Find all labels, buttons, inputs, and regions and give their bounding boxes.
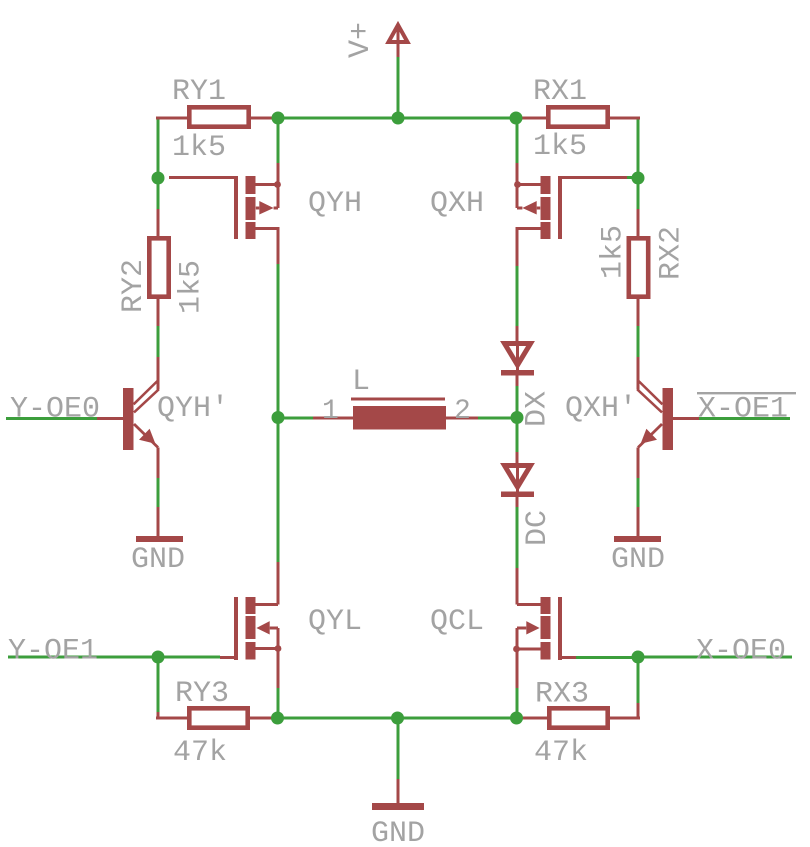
svg-text:GND: GND (611, 543, 665, 577)
junction node top-right (510, 112, 523, 125)
transistor QYH' npn (97, 357, 159, 478)
transistor QXH p-mosfet (514, 163, 637, 266)
wire QCL source to rail (516, 688, 519, 718)
wire QXH drain to DX (516, 266, 519, 326)
svg-text:1k5: 1k5 (172, 131, 226, 165)
resistor RX1 (522, 107, 640, 126)
wire QYH' emitter to GND (157, 478, 160, 507)
svg-text:2: 2 (454, 396, 471, 427)
wire left outer column upper (157, 118, 160, 209)
svg-text:QYL: QYL (308, 605, 362, 639)
svg-text:QXH: QXH (430, 187, 484, 221)
wire QXH source (516, 118, 519, 163)
wire top rail (278, 117, 516, 120)
wire DX to node (516, 386, 519, 452)
svg-text:DX: DX (521, 391, 555, 427)
resistor RX2 (629, 209, 648, 326)
svg-text:X-OE1: X-OE1 (698, 393, 788, 427)
ground bottom (372, 779, 424, 810)
svg-text:RX1: RX1 (533, 75, 587, 109)
svg-text:X-OE0: X-OE0 (696, 635, 786, 669)
svg-text:DC: DC (521, 510, 555, 546)
resistor RY3 (156, 708, 272, 727)
wire net Y-OE0 (6, 417, 97, 420)
svg-text:GND: GND (131, 543, 185, 577)
svg-text:GND: GND (371, 817, 425, 847)
junction node inductor left (272, 411, 285, 424)
ground left (136, 507, 183, 542)
wire bottom rail (278, 717, 517, 720)
ground right (614, 507, 661, 542)
wire Y-OE1 node to RY3 (157, 657, 160, 712)
svg-text:1k5: 1k5 (533, 130, 587, 164)
svg-text:1: 1 (322, 396, 339, 427)
junction node X-OE0 (632, 651, 645, 664)
junction node top-left (272, 112, 285, 125)
svg-text:47k: 47k (173, 736, 227, 770)
transistor QYL n-mosfet (220, 562, 281, 688)
wire net X-OE1 (699, 417, 790, 420)
svg-text:1k5: 1k5 (175, 260, 209, 314)
wire inductor pin 2 to node (478, 417, 517, 420)
diode DX (501, 326, 534, 386)
svg-text:QYH': QYH' (157, 392, 229, 426)
wire DC to QCL (516, 507, 519, 568)
wire V+ to rail (397, 57, 400, 118)
junction node DX-DC (511, 411, 524, 424)
svg-text:47k: 47k (534, 736, 588, 770)
power symbol V+ (389, 25, 408, 57)
diode DC (501, 452, 534, 507)
wire right outer column upper (637, 118, 640, 209)
wire node to inductor pin 1 (278, 417, 313, 420)
svg-text:RX3: RX3 (535, 678, 589, 712)
svg-text:L: L (352, 365, 370, 399)
wire QCL gate link (576, 656, 638, 659)
junction node V+ (392, 112, 405, 125)
wire left inner column center (277, 264, 280, 562)
junction node Y-OE1 (152, 651, 165, 664)
resistor RY1 (156, 107, 274, 126)
wire RX2 to QXH' collector (637, 326, 640, 357)
junction node rail RY3 (271, 712, 284, 725)
label net X-OE1 (697, 392, 796, 427)
wire rail to bottom GND (397, 718, 400, 779)
wire net Y-OE1 (8, 656, 220, 659)
svg-text:RY2: RY2 (117, 259, 151, 313)
wire QXH' emitter to GND (637, 478, 640, 507)
inductor L (313, 398, 478, 430)
wire net X-OE0 (638, 656, 792, 659)
wire QYH source (277, 118, 280, 163)
svg-text:RY1: RY1 (172, 75, 226, 109)
svg-text:V+: V+ (344, 22, 378, 58)
resistor RX3 (522, 703, 640, 728)
svg-text:1k5: 1k5 (597, 225, 631, 279)
transistor QXH' npn (637, 357, 699, 478)
transistor QYH p-mosfet (169, 163, 281, 264)
svg-text:QYH: QYH (308, 187, 362, 221)
junction node rail GND (391, 712, 404, 725)
svg-text:Y-OE1: Y-OE1 (8, 635, 98, 669)
junction node RX1-RX2 (632, 172, 645, 185)
svg-text:RX2: RX2 (655, 226, 689, 280)
transistor QCL n-mosfet (513, 568, 576, 688)
svg-text:Y-OE0: Y-OE0 (10, 393, 100, 427)
svg-text:QXH': QXH' (565, 392, 637, 426)
svg-text:QCL: QCL (430, 605, 484, 639)
resistor RY2 (149, 209, 168, 326)
junction node rail RX3 (510, 712, 523, 725)
wire X-OE0 node to RX3 (637, 657, 640, 703)
wire RY2 to QYH' collector (157, 326, 160, 357)
junction node RY1-RY2 (152, 172, 165, 185)
svg-text:RY3: RY3 (175, 677, 229, 711)
wire QYL source to rail (277, 688, 280, 718)
